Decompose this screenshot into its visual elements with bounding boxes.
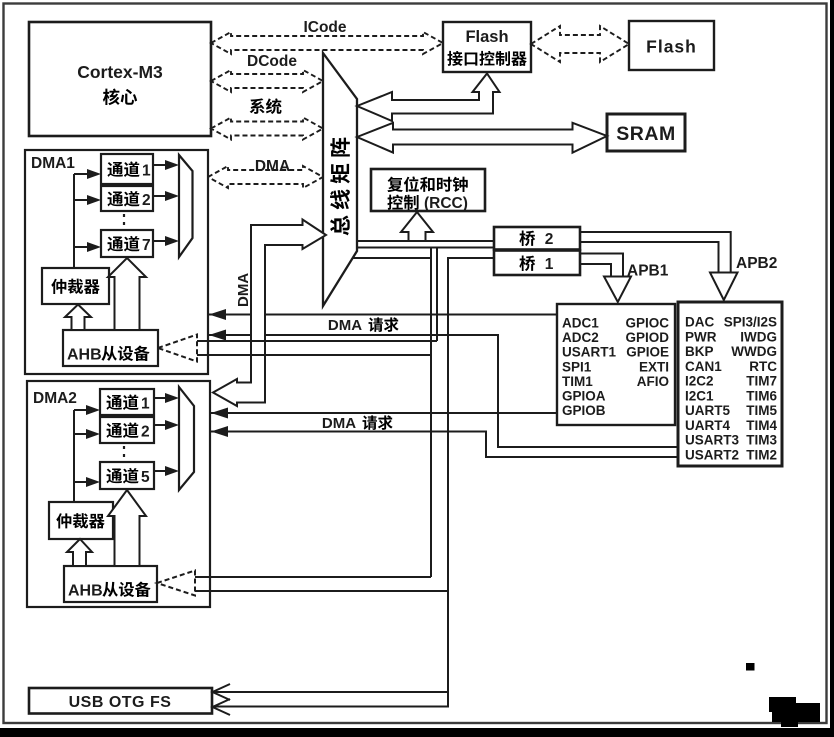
arrow into DMA1 AHB slave [158, 335, 437, 362]
svg-text:Cortex-M3: Cortex-M3 [77, 62, 163, 82]
block Cortex-M3 core [29, 22, 211, 136]
svg-text:2: 2 [142, 192, 151, 209]
svg-text:USART3: USART3 [685, 433, 739, 448]
arrow DMA2 slave-ch5 [108, 490, 146, 566]
svg-text:SRAM: SRAM [616, 123, 675, 145]
svg-text:DMA: DMA [328, 317, 362, 334]
arrow DMA1 feed ch1 [74, 169, 101, 179]
arrow APB1 head [604, 277, 631, 303]
block Flash interface controller [443, 22, 531, 72]
svg-text:TIM7: TIM7 [746, 374, 777, 389]
svg-text:GPIOC: GPIOC [625, 316, 669, 331]
dots DMA2 [123, 446, 125, 461]
wire bridge1 to APB1 outer [580, 254, 623, 277]
arrow DMA2 slave-arbiter [67, 539, 92, 566]
arrow DMA2 ch1 out [154, 393, 179, 403]
block DMA2 channel2 [100, 417, 154, 443]
arrow DMA1 slave-arbiter [65, 305, 91, 331]
svg-text:DMA1: DMA1 [31, 155, 75, 172]
wire DMA1 feed vertical [73, 174, 75, 268]
label DMA request 2 [322, 415, 393, 432]
arrow DMA1 ch2 out [153, 191, 179, 201]
block DMA1 channel1 [101, 154, 153, 184]
label DMA vertical [235, 273, 252, 307]
mux DMA1 collector [179, 155, 193, 257]
block Flash memory [629, 21, 714, 70]
svg-text:APB2: APB2 [736, 255, 777, 272]
svg-text:TIM1: TIM1 [562, 374, 593, 389]
svg-text:GPIOB: GPIOB [562, 403, 606, 418]
block APB2 peripherals [678, 302, 782, 466]
svg-text:GPIOA: GPIOA [562, 389, 606, 404]
wire AHB bus lower [357, 247, 494, 249]
arrow to RCC (hollow up) [401, 212, 433, 241]
svg-text:EXTI: EXTI [639, 359, 669, 374]
svg-text:ADC1: ADC1 [562, 316, 599, 331]
svg-text:1: 1 [545, 256, 554, 273]
bus DMA double arrow [208, 166, 323, 188]
block DMA2 arbiter [49, 502, 113, 539]
wire bridge1 down bus V3 [213, 258, 494, 707]
bus ICode double arrow [211, 32, 443, 54]
svg-text:GPIOE: GPIOE [626, 345, 669, 360]
arrow DMA1 feed ch2 [74, 195, 101, 205]
svg-text:WWDG: WWDG [731, 344, 777, 359]
arrow DMA1 feed ch7 [74, 242, 101, 252]
arrow USB chevron upper [213, 684, 231, 700]
svg-text:AHB: AHB [67, 347, 102, 364]
bus matrix trapezoid [323, 53, 357, 306]
wire vertical AHB bus V2 [436, 248, 438, 342]
wire DMA2 request 1 [211, 408, 557, 419]
svg-text:APB1: APB1 [627, 263, 669, 280]
arrow DMA2 ch5 out [154, 466, 179, 476]
wire bridge1 to APB1 inner [580, 264, 611, 276]
wire DMA1 request 1 [209, 309, 557, 320]
bottom border bar [0, 728, 834, 737]
block bridge 2 [494, 227, 580, 250]
wire matrix slant tap [352, 257, 431, 259]
label DCode [247, 53, 297, 70]
block DMA1 container [25, 150, 208, 374]
svg-text:ADC2: ADC2 [562, 330, 599, 345]
bus DCode double arrow [211, 70, 323, 92]
svg-text:UART4: UART4 [685, 418, 730, 433]
svg-text:TIM4: TIM4 [746, 418, 777, 433]
svg-text:PWR: PWR [685, 329, 717, 344]
arrow matrix-SRAM double [357, 123, 607, 153]
wire bridge2 to APB2 inner [580, 242, 719, 272]
svg-text:Flash: Flash [465, 28, 508, 46]
wire DMA1 request 2 [209, 330, 678, 448]
watermark dot [746, 663, 755, 671]
block SRAM [607, 114, 685, 151]
arrow DMA1 slave-ch7 [108, 258, 146, 330]
flash double arrow [531, 26, 629, 62]
svg-text:AHB: AHB [68, 583, 103, 600]
dots DMA1 [123, 214, 125, 229]
block DMA1 channel2 [101, 186, 153, 211]
arrow DMA2 feed ch1 [74, 405, 100, 415]
mux DMA2 collector [179, 387, 194, 490]
block RCC (reset & clock control) [371, 169, 485, 212]
label ICode [303, 19, 346, 36]
block DMA1 channel7 [101, 230, 153, 257]
wire vertical AHB bus V1 [430, 248, 432, 578]
svg-text:7: 7 [142, 237, 151, 254]
arrow DMA1 ch7 out [153, 236, 179, 246]
svg-text:RTC: RTC [749, 359, 777, 374]
svg-text:DMA: DMA [235, 273, 252, 307]
block DMA1 arbiter [42, 268, 109, 304]
block DMA2 AHB slave [64, 566, 157, 602]
svg-text:1: 1 [142, 163, 151, 180]
bus system double arrow [211, 118, 323, 140]
wire DMA2 feed vertical [73, 410, 75, 502]
svg-text:IWDG: IWDG [740, 329, 777, 344]
arrow DMA2-matrix bent double [213, 220, 326, 407]
svg-text:SPI1: SPI1 [562, 359, 592, 374]
arrow APB2 head [710, 273, 738, 301]
block DMA2 channel1 [100, 389, 154, 415]
svg-text:CAN1: CAN1 [685, 359, 722, 374]
block bridge 1 [494, 251, 580, 276]
svg-text:GPIOD: GPIOD [625, 330, 669, 345]
arrow USB chevron lower [213, 699, 231, 715]
arrow DMA1 ch1 out [153, 160, 179, 170]
block USB OTG FS [29, 688, 212, 714]
svg-text:USB OTG FS: USB OTG FS [69, 694, 172, 711]
block DMA2 channel5 [100, 462, 154, 489]
arrow matrix-to-flash-controller (bent) [357, 74, 500, 122]
svg-text:DMA: DMA [322, 415, 356, 432]
svg-text:Flash: Flash [646, 37, 697, 57]
svg-text:ICode: ICode [303, 19, 346, 36]
svg-text:2: 2 [141, 424, 150, 441]
wire bridge2 to APB2 outer [580, 232, 731, 272]
svg-text:5: 5 [141, 469, 150, 486]
svg-text:TIM6: TIM6 [746, 388, 777, 403]
svg-text:TIM5: TIM5 [746, 403, 777, 418]
svg-text:USART2: USART2 [685, 447, 739, 462]
label system (Chinese) [250, 98, 282, 114]
arrow DMA2 ch2 out [154, 420, 179, 430]
svg-text:DMA2: DMA2 [33, 390, 77, 407]
svg-text:DCode: DCode [247, 53, 297, 70]
svg-text:USART1: USART1 [562, 345, 616, 360]
label bus matrix vertical [330, 138, 350, 236]
watermark blob [769, 697, 820, 727]
svg-text:I2C1: I2C1 [685, 388, 714, 403]
block DMA1 AHB slave [63, 330, 158, 366]
svg-text:I2C2: I2C2 [685, 374, 714, 389]
label APB1 [627, 263, 669, 280]
svg-text:DMA: DMA [255, 158, 290, 175]
block APB1 peripherals [557, 304, 675, 425]
svg-text:SPI3/I2S: SPI3/I2S [724, 315, 777, 330]
svg-text:TIM3: TIM3 [746, 433, 777, 448]
label DMA request 1 [328, 317, 399, 334]
label DMA [255, 158, 290, 175]
svg-text:AFIO: AFIO [637, 374, 669, 389]
arrow DMA2 feed ch2 [74, 429, 100, 439]
wire AHB bus upper [357, 240, 494, 242]
arrow DMA2 feed ch5 [74, 477, 100, 487]
svg-text:1: 1 [141, 396, 150, 413]
label APB2 [736, 255, 777, 272]
wire DMA2 request 2 [211, 426, 678, 457]
svg-text:(RCC): (RCC) [424, 195, 468, 212]
svg-text:DAC: DAC [685, 315, 714, 330]
right border bar [830, 0, 834, 737]
svg-text:BKP: BKP [685, 344, 714, 359]
wire USB upper [213, 691, 448, 693]
arrow into DMA2 AHB slave [157, 571, 448, 596]
svg-text:TIM2: TIM2 [746, 447, 777, 462]
block DMA2 container [27, 381, 210, 607]
svg-text:UART5: UART5 [685, 403, 730, 418]
svg-text:2: 2 [545, 231, 554, 248]
